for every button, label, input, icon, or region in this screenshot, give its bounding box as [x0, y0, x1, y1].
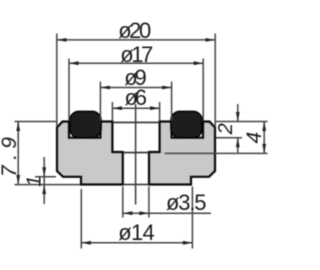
svg-text:ø20: ø20	[118, 18, 151, 43]
svg-text:1: 1	[23, 176, 45, 187]
svg-text:2: 2	[215, 123, 237, 135]
svg-text:ø14: ø14	[118, 220, 155, 245]
svg-text:ø6: ø6	[125, 85, 148, 110]
svg-text:ø3.5: ø3.5	[166, 190, 207, 215]
svg-text:7.9: 7.9	[0, 137, 21, 177]
svg-text:ø17: ø17	[120, 42, 153, 67]
svg-text:4: 4	[243, 132, 266, 144]
